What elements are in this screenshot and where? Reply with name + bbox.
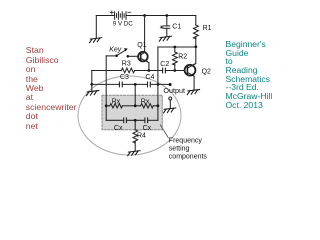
svg-text:R3: R3 <box>122 60 131 67</box>
svg-text:Key: Key <box>109 47 122 54</box>
svg-text:Rx: Rx <box>141 98 150 105</box>
node: box right <box>157 104 160 107</box>
wire: center down to R4 <box>134 120 136 130</box>
resistor Rx (left) <box>106 105 110 107</box>
svg-text:setting: setting <box>169 145 190 152</box>
wire: base wire from C2 to Q2 <box>165 70 184 72</box>
svg-text:Rx: Rx <box>112 98 121 105</box>
capacitor Cx (left) <box>123 118 125 123</box>
battery B1 9V <box>115 12 126 19</box>
capacitor C3 <box>118 82 120 87</box>
node: R2 bottom on base wire <box>173 69 176 72</box>
battery - mark <box>128 11 131 13</box>
wire: center tap down into box <box>134 84 136 105</box>
ground (left, below T) <box>87 91 99 96</box>
frequency ellipse (light) <box>78 76 181 155</box>
right teal caption text <box>226 40 273 110</box>
wire: key vertical down into RC box <box>105 56 107 106</box>
node: box mid <box>134 104 137 107</box>
node: C3/C4 midpoint <box>134 83 137 86</box>
wire: Q1 collector up to rail <box>144 16 146 53</box>
ground (Q2 emitter) <box>187 90 199 95</box>
wire: R3 left corner down <box>91 71 93 85</box>
wire: Q1 emitter down to base wire <box>148 63 150 71</box>
capacitor C1 with asterisk <box>166 16 168 26</box>
ground (below C1) <box>159 36 171 41</box>
svg-text:C3: C3 <box>120 74 129 81</box>
svg-text:Q2: Q2 <box>202 69 211 76</box>
transistor Q1 <box>138 52 148 62</box>
svg-text:R1: R1 <box>203 25 212 32</box>
ground (R4) <box>128 151 140 156</box>
wire: C3/C4 row <box>92 83 120 85</box>
svg-text:Q1: Q1 <box>137 42 146 49</box>
leader line to caption <box>160 125 168 138</box>
wire: Q2 collector to R1 rail <box>194 47 196 65</box>
wire: top rail right segment <box>126 15 196 17</box>
svg-text:R4: R4 <box>137 132 146 139</box>
svg-text:Output: Output <box>163 86 185 95</box>
resistor Rx (right) <box>135 105 140 107</box>
wire: box left vertical <box>105 106 107 121</box>
svg-text:R2: R2 <box>178 54 187 61</box>
capacitor C2 <box>162 68 164 73</box>
node: emitter junction <box>148 69 151 72</box>
ground (battery left) <box>90 38 102 43</box>
resistor R3 <box>92 70 122 72</box>
node: Cx midpoint <box>134 119 137 122</box>
wire: left vertical from rail to ground <box>95 16 97 38</box>
resistor R1 <box>195 16 197 26</box>
node: box left <box>105 104 108 107</box>
svg-text:C4: C4 <box>145 74 154 81</box>
wire: vertical from mid rail down to C4/output wire <box>157 47 159 106</box>
svg-text:9 V DC: 9 V DC <box>113 21 133 28</box>
wire: Q2 emitter to ground <box>193 76 195 89</box>
node: rail junction at Q1 collector <box>143 14 146 17</box>
battery + mark <box>110 11 113 14</box>
node: R1 bottom <box>194 45 197 48</box>
ground (output) <box>164 108 176 113</box>
wire: Cx row <box>106 119 124 121</box>
capacitor C4 <box>147 82 149 87</box>
switch Key <box>117 50 126 56</box>
node: R2 top <box>173 46 176 49</box>
resistor R2 <box>174 47 176 52</box>
wire: key right contact to Q1 base <box>128 55 138 57</box>
wire: key left contact to left vertical <box>106 55 116 57</box>
svg-text:Frequency: Frequency <box>169 137 203 144</box>
svg-text:C2: C2 <box>160 61 169 68</box>
svg-text:C1: C1 <box>172 24 181 31</box>
wire: box right vertical <box>157 106 159 121</box>
output terminal circle <box>169 97 172 100</box>
left red caption text <box>26 46 77 131</box>
wire: top rail left segment <box>96 15 114 17</box>
wire: mid rail y=47 <box>158 46 196 48</box>
dashed component box <box>102 95 162 130</box>
capacitor Cx (right) <box>144 118 146 123</box>
svg-text:components: components <box>169 153 208 160</box>
svg-text:Cx: Cx <box>114 125 123 132</box>
node: left T junction <box>90 83 93 86</box>
component labels <box>109 21 211 161</box>
node: twin-T right crossing <box>157 83 160 86</box>
node: output tap <box>169 83 172 86</box>
node: rail junction at C1 <box>165 14 168 17</box>
transistor Q2 <box>185 65 196 76</box>
resistor R4 <box>133 130 138 143</box>
svg-text:Cx: Cx <box>143 125 152 132</box>
